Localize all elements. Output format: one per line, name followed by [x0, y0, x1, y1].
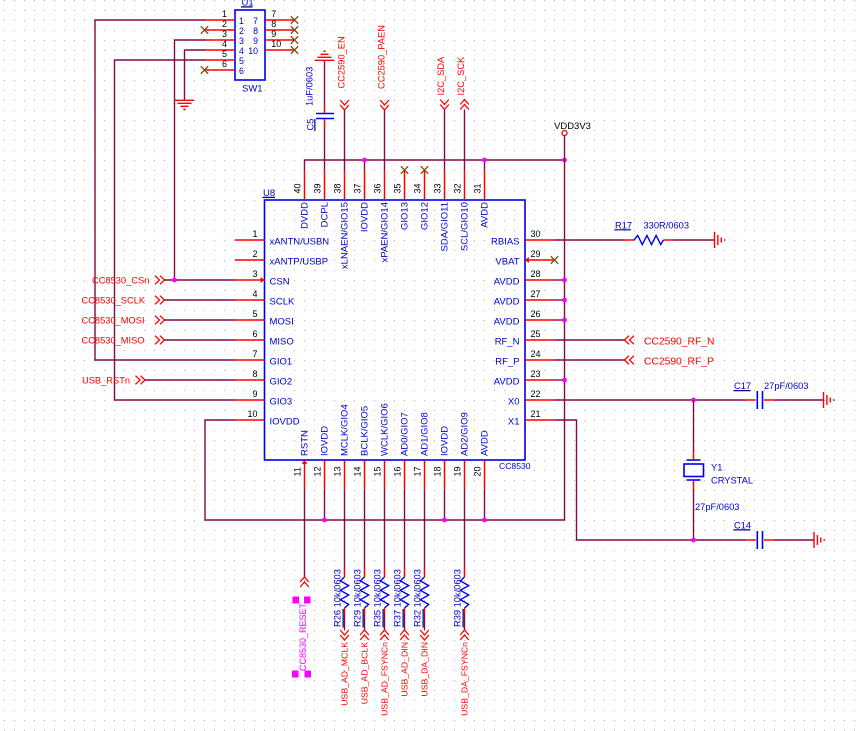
- wire SW1 pin3 to CC8530_CSn net: [175, 40, 206, 280]
- U8 pin 1 xANTN/USBN: [235, 229, 329, 248]
- wire pin18 IOVDD to bottom bus: [444, 490, 446, 520]
- svg-text:27pF/0603: 27pF/0603: [695, 502, 739, 512]
- SW1 pin 5: [205, 49, 245, 66]
- U8 pin 16 AD0/GIO7: [393, 412, 411, 490]
- wire R39 to port USB_DA_FSYNCn: [464, 614, 466, 630]
- svg-text:4: 4: [222, 39, 227, 49]
- svg-text:2: 2: [252, 249, 257, 259]
- U8 pin 31 AVDD: [473, 170, 491, 228]
- svg-text:10: 10: [247, 409, 257, 419]
- wire pin20 AVDD to bottom bus: [484, 490, 486, 520]
- svg-text:22: 22: [531, 389, 541, 399]
- svg-text:9: 9: [271, 29, 276, 39]
- svg-text:40: 40: [293, 183, 303, 193]
- wire I2C_SCK to pin32: [464, 110, 466, 171]
- svg-text:DCPL: DCPL: [319, 202, 330, 227]
- U8 pin 33 SDA/GIO11: [433, 170, 451, 251]
- svg-text:35: 35: [393, 183, 403, 193]
- U8 pin 12 IOVDD: [313, 426, 331, 490]
- no-connect X on SW1 pin 9: [291, 36, 298, 43]
- wire R29 to port USB_AD_BCLK: [364, 614, 366, 630]
- svg-text:R37 10k/0603: R37 10k/0603: [393, 569, 403, 627]
- svg-text:IOVDD: IOVDD: [319, 426, 330, 456]
- svg-text:38: 38: [333, 183, 343, 193]
- wire bus to pin37 IOVDD: [364, 160, 366, 170]
- U8 pin 17 AD1/GIO8: [413, 412, 431, 490]
- svg-text:AVDD: AVDD: [494, 297, 520, 308]
- SW1 pin 4: [205, 39, 245, 56]
- port CC8530_SCLK: [82, 296, 165, 306]
- wire gnd to C5: [324, 61, 326, 104]
- refdes C14: [734, 520, 752, 530]
- wire CC2590_EN to pin38: [344, 110, 346, 170]
- svg-text:CC8530_MISO: CC8530_MISO: [82, 336, 145, 346]
- SW1 pin 7: [253, 9, 294, 26]
- svg-text:AVDD: AVDD: [494, 377, 520, 388]
- svg-text:19: 19: [453, 466, 463, 476]
- U8 pin 18 IOVDD: [433, 426, 451, 490]
- U8 pin 27 AVDD: [494, 289, 555, 308]
- svg-text:R26 10k/0603: R26 10k/0603: [333, 569, 343, 627]
- resistor R17: [624, 235, 674, 244]
- connector U1/SW1 body: [235, 10, 265, 80]
- svg-text:USB_AD_FSYNCn: USB_AD_FSYNCn: [380, 642, 390, 716]
- port CC8530_RESET (selected): [292, 577, 311, 678]
- svg-text:15: 15: [373, 466, 383, 476]
- ground right of C17: [824, 392, 834, 408]
- svg-text:16: 16: [393, 466, 403, 476]
- svg-text:6: 6: [222, 59, 227, 69]
- port USB_AD_BCLK: [360, 630, 370, 704]
- U8 pin 22 X0: [508, 389, 555, 408]
- wire I2C_SDA to pin33: [444, 110, 446, 171]
- SW1 pin 3: [205, 29, 245, 46]
- junction X0 crystal: [691, 398, 696, 403]
- svg-text:1: 1: [239, 16, 244, 26]
- capacitor C17: [746, 391, 774, 409]
- U8 pin 36 xPAEN/GIO14: [373, 170, 391, 263]
- port CC8530_MOSI: [82, 316, 165, 326]
- port USB_DA_FSYNCn: [460, 630, 470, 716]
- svg-text:IOVDD: IOVDD: [439, 426, 450, 456]
- wire C14 to ground: [774, 539, 814, 541]
- U8 pin 37 IOVDD: [353, 170, 371, 232]
- svg-text:Y1: Y1: [711, 462, 722, 472]
- refdes C17: [734, 381, 752, 391]
- svg-text:AD0/GIO7: AD0/GIO7: [399, 412, 410, 456]
- resistor R32: [420, 568, 428, 615]
- wire SW1 pin4 to ground: [185, 50, 206, 100]
- junction CSn net: [172, 278, 177, 283]
- U8 pin 14 BCLK/GIO5: [353, 406, 371, 490]
- svg-text:xANTN/USBN: xANTN/USBN: [270, 237, 330, 248]
- label R35 10k/0603: [373, 569, 384, 627]
- svg-text:MOSI: MOSI: [270, 317, 294, 328]
- svg-text:X0: X0: [508, 397, 520, 408]
- svg-text:6: 6: [252, 329, 257, 339]
- svg-text:CC2590_RF_N: CC2590_RF_N: [644, 337, 714, 348]
- svg-text:25: 25: [531, 329, 541, 339]
- wire USB_RSTn to U8: [145, 379, 235, 381]
- U8 pin 21 X1: [508, 409, 555, 428]
- junction AVDD y=320: [562, 318, 567, 323]
- wire X1 to C14: [555, 420, 746, 540]
- capacitor C5: [316, 104, 334, 128]
- svg-text:IOVDD: IOVDD: [359, 202, 370, 232]
- svg-text:CC8530_RESET: CC8530_RESET: [298, 602, 308, 671]
- svg-text:SCL/GIO10: SCL/GIO10: [459, 202, 470, 251]
- svg-text:24: 24: [531, 349, 541, 359]
- U8 pin 19 AD2/GIO9: [453, 412, 471, 490]
- wire RF_N: [555, 339, 625, 341]
- svg-text:37: 37: [353, 183, 363, 193]
- port CC2590_PAEN: [377, 25, 389, 110]
- svg-text:CC8530_SCLK: CC8530_SCLK: [82, 296, 146, 306]
- svg-text:AVDD: AVDD: [479, 202, 490, 228]
- U8 pin 7 GIO1: [235, 349, 292, 368]
- input arrow on U8 pin 11 RSTN: [302, 460, 308, 464]
- svg-text:9: 9: [253, 36, 258, 46]
- svg-text:8: 8: [253, 26, 258, 36]
- port USB_RSTn: [82, 376, 145, 386]
- junction bus pin12: [322, 518, 327, 523]
- svg-text:4: 4: [252, 289, 257, 299]
- svg-text:SDA/GIO11: SDA/GIO11: [439, 202, 450, 251]
- svg-text:CSN: CSN: [270, 277, 290, 288]
- svg-text:VBAT: VBAT: [495, 257, 519, 268]
- no-connect X on SW1 pin 2: [201, 26, 208, 33]
- U8 pin 39 DCPL: [313, 170, 331, 227]
- U8 pin 40 DVDD: [293, 170, 311, 229]
- U8 pin 29 VBAT: [495, 249, 555, 268]
- wire CC8530_MISO to U8: [165, 339, 236, 341]
- svg-text:5: 5: [239, 56, 244, 66]
- svg-text:I2C_SCK: I2C_SCK: [456, 56, 466, 96]
- U8 pin 8 GIO2: [235, 369, 292, 388]
- wire RSTN down: [304, 490, 306, 577]
- svg-text:BCLK/GIO5: BCLK/GIO5: [359, 406, 370, 456]
- svg-text:2: 2: [222, 19, 227, 29]
- svg-text:7: 7: [252, 349, 257, 359]
- svg-text:1: 1: [252, 229, 257, 239]
- label R39 10k/0603: [453, 569, 464, 627]
- wire pin12 IOVDD to bottom bus: [324, 490, 326, 520]
- wire SW1 pin1 to U8 GIO1: [95, 20, 235, 360]
- svg-text:34: 34: [413, 183, 423, 193]
- no-connect X on GIO13 pin 35: [401, 166, 408, 173]
- U8 pin 15 WCLK/GIO6: [373, 403, 391, 490]
- ground below SW1: [175, 100, 194, 109]
- wire RBIAS to R17: [555, 239, 624, 241]
- U8 pin 32 SCL/GIO10: [453, 170, 471, 251]
- svg-text:29: 29: [531, 249, 541, 259]
- wire AVDD tap y=320: [555, 319, 565, 321]
- svg-text:20: 20: [473, 466, 483, 476]
- wire AVDD tap y=380: [555, 379, 565, 381]
- U8 pin 11 RSTN: [293, 430, 311, 490]
- U8 pin 6 MISO: [235, 329, 294, 348]
- U8 pin 23 AVDD: [494, 369, 555, 388]
- svg-text:GIO1: GIO1: [270, 357, 293, 368]
- junction bus VDD3V3: [562, 158, 567, 163]
- wire U8 to R26: [344, 490, 346, 568]
- svg-text:5: 5: [222, 49, 227, 59]
- port I2C_SDA: [436, 56, 449, 110]
- U8 pin 3 CSN: [235, 269, 290, 288]
- U8 pin 35 GIO13: [393, 170, 411, 230]
- refdes R17: [615, 220, 633, 230]
- wire CC8530_CSn to U8: [165, 279, 236, 281]
- U8 pin 28 AVDD: [494, 269, 555, 288]
- svg-text:CC2590_PAEN: CC2590_PAEN: [377, 25, 387, 89]
- crystal Y1: [684, 451, 704, 490]
- svg-text:RSTN: RSTN: [299, 430, 310, 456]
- svg-text:39: 39: [313, 183, 323, 193]
- svg-text:USB_AD_BCLK: USB_AD_BCLK: [360, 642, 370, 704]
- svg-text:3: 3: [252, 269, 257, 279]
- port CC2590_RF_N: [625, 336, 715, 348]
- svg-text:5: 5: [252, 309, 257, 319]
- svg-text:AD1/GIO8: AD1/GIO8: [419, 412, 430, 456]
- wire RF_P: [555, 359, 625, 361]
- svg-text:CC2590_EN: CC2590_EN: [337, 36, 347, 88]
- wire R17 to ground: [674, 239, 715, 241]
- wire R32 to port USB_DA_DIN: [424, 614, 426, 630]
- SW1 pin 8: [253, 19, 294, 36]
- wire C5 to pin39 DCPL: [324, 128, 326, 170]
- SW1 pin 2: [205, 19, 245, 36]
- svg-text:CC8530: CC8530: [499, 461, 531, 471]
- refdes U8: [263, 188, 276, 199]
- svg-text:28: 28: [531, 269, 541, 279]
- wire CC8530_SCLK to U8: [165, 299, 236, 301]
- junction bus pin31: [482, 158, 487, 163]
- svg-text:8: 8: [271, 19, 276, 29]
- svg-text:AVDD: AVDD: [479, 430, 490, 456]
- svg-text:7: 7: [271, 9, 276, 19]
- svg-text:RBIAS: RBIAS: [491, 237, 520, 248]
- svg-text:GIO12: GIO12: [419, 202, 430, 230]
- svg-text:26: 26: [531, 309, 541, 319]
- svg-text:10: 10: [248, 46, 258, 56]
- wire U8 to R39: [464, 490, 466, 568]
- port USB_DA_DIN: [420, 630, 430, 697]
- wire U8 to R35: [384, 490, 386, 568]
- svg-text:GIO3: GIO3: [270, 397, 293, 408]
- resistor R39: [460, 568, 468, 615]
- junction AVDD y=380: [562, 378, 567, 383]
- svg-text:USB_DA_DIN: USB_DA_DIN: [420, 642, 430, 697]
- wire U8 to R37: [404, 490, 406, 568]
- svg-text:GIO2: GIO2: [270, 377, 293, 388]
- svg-text:30: 30: [531, 229, 541, 239]
- wire R26 to port USB_AD_MCLK: [344, 614, 346, 630]
- wire VDD3V3 rail down and bottom bus to pin10 IOVDD: [205, 136, 565, 521]
- svg-text:CRYSTAL: CRYSTAL: [711, 475, 753, 485]
- svg-text:I2C_SDA: I2C_SDA: [436, 56, 446, 96]
- svg-text:C5: C5: [306, 119, 316, 131]
- wire SW1 pin5 to U8 GIO3: [115, 60, 236, 400]
- svg-text:9: 9: [252, 389, 257, 399]
- svg-text:X1: X1: [508, 417, 520, 428]
- ground above C5: [315, 51, 334, 60]
- ground right of C14: [814, 532, 824, 548]
- U8 pin 2 xANTP/USBP: [235, 249, 328, 268]
- svg-text:4: 4: [239, 46, 244, 56]
- U8 pin 25 RF_N: [495, 329, 555, 348]
- svg-text:R32 10k/0603: R32 10k/0603: [413, 569, 423, 627]
- U8 pin 4 SCLK: [235, 289, 295, 308]
- no-connect X on SW1 pin 10: [291, 46, 298, 53]
- SW1 pin 10: [248, 39, 294, 56]
- ground right of R17: [715, 232, 725, 248]
- IC U8 CC8530 body: [265, 200, 526, 460]
- svg-text:2: 2: [239, 26, 244, 36]
- port CC8530_MISO: [82, 336, 165, 346]
- U8 pin 9 GIO3: [235, 389, 292, 408]
- svg-text:13: 13: [333, 466, 343, 476]
- wire CC2590_PAEN to pin36: [384, 110, 386, 170]
- no-connect X on SW1 pin 6: [201, 66, 208, 73]
- svg-text:xPAEN/GIO14: xPAEN/GIO14: [379, 202, 390, 263]
- svg-text:3: 3: [222, 29, 227, 39]
- svg-text:IOVDD: IOVDD: [270, 417, 300, 428]
- label R32 10k/0603: [413, 569, 424, 627]
- resistor R35: [380, 568, 388, 615]
- svg-text:23: 23: [531, 369, 541, 379]
- svg-text:14: 14: [353, 466, 363, 476]
- wire U8 to R29: [364, 490, 366, 568]
- input arrow on U8 pin 29 VBAT: [525, 257, 529, 263]
- junction AVDD y=300: [562, 298, 567, 303]
- svg-text:11: 11: [293, 467, 303, 476]
- svg-text:RF_N: RF_N: [495, 337, 520, 348]
- no-connect X on VBAT pin 29: [551, 256, 558, 263]
- svg-text:C17: C17: [734, 381, 751, 391]
- svg-text:1: 1: [222, 9, 227, 19]
- junction X1 crystal: [691, 538, 696, 543]
- wire U8 to R32: [424, 490, 426, 568]
- svg-text:33: 33: [433, 183, 443, 193]
- svg-text:10: 10: [271, 39, 281, 49]
- no-connect X on GIO12 pin 34: [421, 166, 428, 173]
- svg-text:CC8530_MOSI: CC8530_MOSI: [82, 316, 145, 326]
- svg-text:DVDD: DVDD: [299, 202, 310, 229]
- svg-text:AVDD: AVDD: [494, 277, 520, 288]
- SW1 pin 1: [205, 9, 245, 26]
- svg-text:USB_DA_FSYNCn: USB_DA_FSYNCn: [460, 642, 470, 716]
- power symbol VDD3V3: [554, 121, 591, 136]
- junction bus pin37: [362, 158, 367, 163]
- label R29 10k/0603: [353, 569, 364, 627]
- svg-text:GIO13: GIO13: [399, 202, 410, 230]
- svg-text:R39 10k/0603: R39 10k/0603: [453, 569, 463, 627]
- resistor R37: [400, 568, 408, 615]
- svg-text:R17: R17: [615, 220, 632, 230]
- svg-text:AD2/GIO9: AD2/GIO9: [459, 412, 470, 456]
- svg-text:SW1: SW1: [242, 84, 263, 95]
- port CC8530_CSn: [92, 276, 165, 286]
- label R26 10k/0603: [333, 569, 344, 627]
- svg-text:VDD3V3: VDD3V3: [554, 121, 591, 132]
- svg-text:27: 27: [531, 289, 541, 299]
- no-connect X on SW1 pin 8: [291, 26, 298, 33]
- svg-text:6: 6: [239, 66, 244, 76]
- svg-text:C14: C14: [734, 520, 751, 530]
- no-connect X on SW1 pin 7: [291, 16, 298, 23]
- U8 pin 24 RF_P: [495, 349, 555, 368]
- svg-text:32: 32: [453, 183, 463, 193]
- svg-text:7: 7: [253, 16, 258, 26]
- svg-text:RF_P: RF_P: [495, 357, 519, 368]
- svg-text:18: 18: [433, 466, 443, 476]
- U8 pin 34 GIO12: [413, 170, 431, 230]
- wire CC8530_MOSI to U8: [165, 319, 236, 321]
- wire R37 to port USB_AD_DIN: [404, 614, 406, 630]
- U8 pin 20 AVDD: [473, 430, 491, 490]
- svg-text:WCLK/GIO6: WCLK/GIO6: [379, 403, 390, 456]
- svg-text:CC8530_CSn: CC8530_CSn: [92, 276, 149, 286]
- port I2C_SCK: [456, 56, 469, 110]
- U8 pin 13 MCLK/GIO4: [333, 404, 351, 490]
- resistor R26: [340, 568, 348, 615]
- wire to crystal Y1: [693, 400, 695, 451]
- wire AVDD tap y=280: [555, 279, 565, 281]
- svg-text:xLNAEN/GIO15: xLNAEN/GIO15: [339, 202, 350, 269]
- junction bus pin18: [442, 518, 447, 523]
- svg-text:MCLK/GIO4: MCLK/GIO4: [339, 404, 350, 456]
- SW1 pin 9: [253, 29, 294, 46]
- wire X0 to C17: [555, 399, 746, 401]
- U8 pin 5 MOSI: [235, 309, 294, 328]
- label R37 10k/0603: [393, 569, 404, 627]
- svg-text:21: 21: [531, 409, 541, 419]
- junction AVDD y=280: [562, 278, 567, 283]
- svg-text:31: 31: [473, 183, 483, 193]
- svg-text:MISO: MISO: [270, 337, 294, 348]
- wire AVDD tap y=300: [555, 299, 565, 301]
- svg-text:3: 3: [239, 36, 244, 46]
- svg-text:27pF/0603: 27pF/0603: [764, 381, 808, 391]
- svg-text:36: 36: [373, 183, 383, 193]
- port USB_AD_FSYNCn: [380, 630, 390, 716]
- SW1 pin 6: [205, 59, 245, 76]
- svg-text:AVDD: AVDD: [494, 317, 520, 328]
- svg-text:330R/0603: 330R/0603: [644, 220, 690, 230]
- resistor R29: [360, 568, 368, 615]
- port CC2590_RF_P: [625, 356, 714, 368]
- port USB_AD_DIN: [400, 630, 410, 697]
- U8 pin 10 IOVDD: [235, 409, 300, 428]
- U8 pin 38 xLNAEN/GIO15: [333, 170, 351, 269]
- svg-text:8: 8: [252, 369, 257, 379]
- wire C17 to ground: [774, 399, 823, 401]
- wire VDD3V3 top bus: [305, 160, 565, 170]
- refdes U1: [241, 0, 254, 9]
- port CC2590_EN: [337, 36, 349, 110]
- U8 pin 26 AVDD: [494, 309, 555, 328]
- U8 pin 30 RBIAS: [491, 229, 555, 248]
- capacitor C14: [746, 531, 774, 549]
- port USB_AD_MCLK: [340, 630, 350, 706]
- wire R35 to port USB_AD_FSYNCn: [384, 614, 386, 630]
- refdes C5: [306, 119, 316, 131]
- svg-text:USB_RSTn: USB_RSTn: [82, 376, 130, 386]
- svg-text:1uF/0603: 1uF/0603: [305, 67, 315, 106]
- wire bus to pin31 AVDD: [484, 160, 486, 170]
- svg-text:xANTP/USBP: xANTP/USBP: [270, 257, 329, 268]
- svg-text:12: 12: [313, 466, 323, 476]
